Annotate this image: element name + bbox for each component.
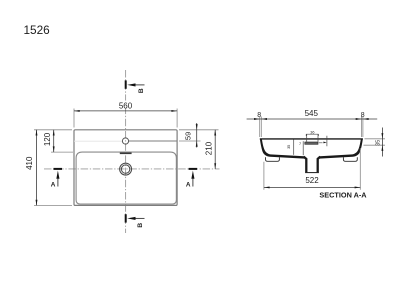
120 arrows [53, 130, 55, 136]
faucet line right of hole [129, 140, 177, 142]
svg-text:SECTION A-A: SECTION A-A [319, 190, 367, 199]
hatched faucet hole bar [305, 142, 318, 144]
faucet centerline (faint left part) [74, 140, 122, 142]
drain outer circle [120, 163, 132, 175]
svg-text:B: B [137, 223, 144, 228]
svg-text:522: 522 [305, 176, 319, 185]
560 arrows [74, 110, 80, 112]
410 arrows [36, 130, 38, 136]
faucet hole [122, 138, 128, 144]
dim 120 line [53, 130, 55, 152]
overflow slot [120, 152, 132, 154]
dim 210 line [214, 130, 216, 169]
right 8 outside arrow [363, 118, 369, 120]
centerline A-A horizontal [44, 168, 220, 170]
drain inner circle [121, 165, 129, 173]
svg-text:59: 59 [184, 132, 193, 140]
svg-text:210: 210 [205, 141, 214, 155]
top dim line with tails [247, 118, 378, 120]
right small dim arrow [323, 142, 327, 144]
svg-text:7: 7 [299, 142, 301, 146]
dimension arrowheads plan [36, 110, 217, 205]
svg-text:36: 36 [310, 130, 314, 134]
section mark A right [186, 169, 197, 188]
545 right arrow [356, 118, 362, 120]
svg-text:A: A [51, 181, 56, 188]
dim 560 extension lines [74, 109, 177, 128]
dim 410 extension lines [34, 130, 72, 206]
svg-text:35: 35 [287, 145, 291, 149]
210 arrows [214, 130, 216, 136]
small dim line 36 [306, 134, 318, 136]
522 dim line [264, 186, 360, 188]
svg-text:410: 410 [25, 156, 34, 170]
section mark B top [126, 80, 145, 93]
svg-text:1526: 1526 [24, 23, 51, 37]
35 arrows outside [381, 133, 383, 139]
top edge extension right [179, 129, 219, 131]
svg-text:B: B [138, 88, 145, 93]
drain bottom [305, 172, 319, 174]
522 extension lines [264, 148, 360, 190]
svg-text:120: 120 [43, 132, 52, 146]
hole projection box [307, 134, 318, 141]
svg-text:560: 560 [119, 101, 133, 110]
545 left arrow [261, 118, 267, 120]
top dim extension lines [260, 117, 363, 138]
section mark A left [51, 169, 62, 188]
svg-text:35: 35 [376, 140, 382, 146]
faucet hole detail in section [294, 134, 327, 155]
section left wall cut band [260, 139, 304, 158]
faucet line extension right [179, 140, 201, 142]
right small dim [319, 136, 327, 146]
section top rim line [260, 138, 363, 140]
drain right wall [318, 157, 321, 173]
svg-text:A: A [186, 181, 191, 188]
dim 120 extension line [51, 151, 73, 153]
basin inner bowl [76, 152, 176, 204]
522 arrows [264, 186, 270, 188]
hole depth lines [302, 141, 304, 155]
svg-text:8: 8 [257, 112, 261, 119]
dim 59 line [196, 123, 198, 148]
dim 410 line [36, 130, 38, 206]
svg-text:8: 8 [361, 112, 365, 119]
dim texts plan [118, 101, 134, 109]
left foot [266, 157, 280, 161]
section dim arrowheads [254, 118, 383, 188]
centerline B-B vertical [125, 70, 127, 233]
drain left wall [304, 157, 307, 173]
left 8 outside arrow [254, 118, 260, 120]
section right wall cut band [320, 139, 363, 158]
59 arrows (outside) [196, 124, 198, 130]
right foot [343, 157, 357, 161]
35 dim extension lines [364, 139, 386, 145]
basin outer rect [74, 130, 177, 206]
section mark B bottom [126, 214, 145, 228]
svg-text:545: 545 [305, 109, 319, 118]
dim 560 line [74, 110, 177, 112]
35 dim line [381, 128, 383, 157]
